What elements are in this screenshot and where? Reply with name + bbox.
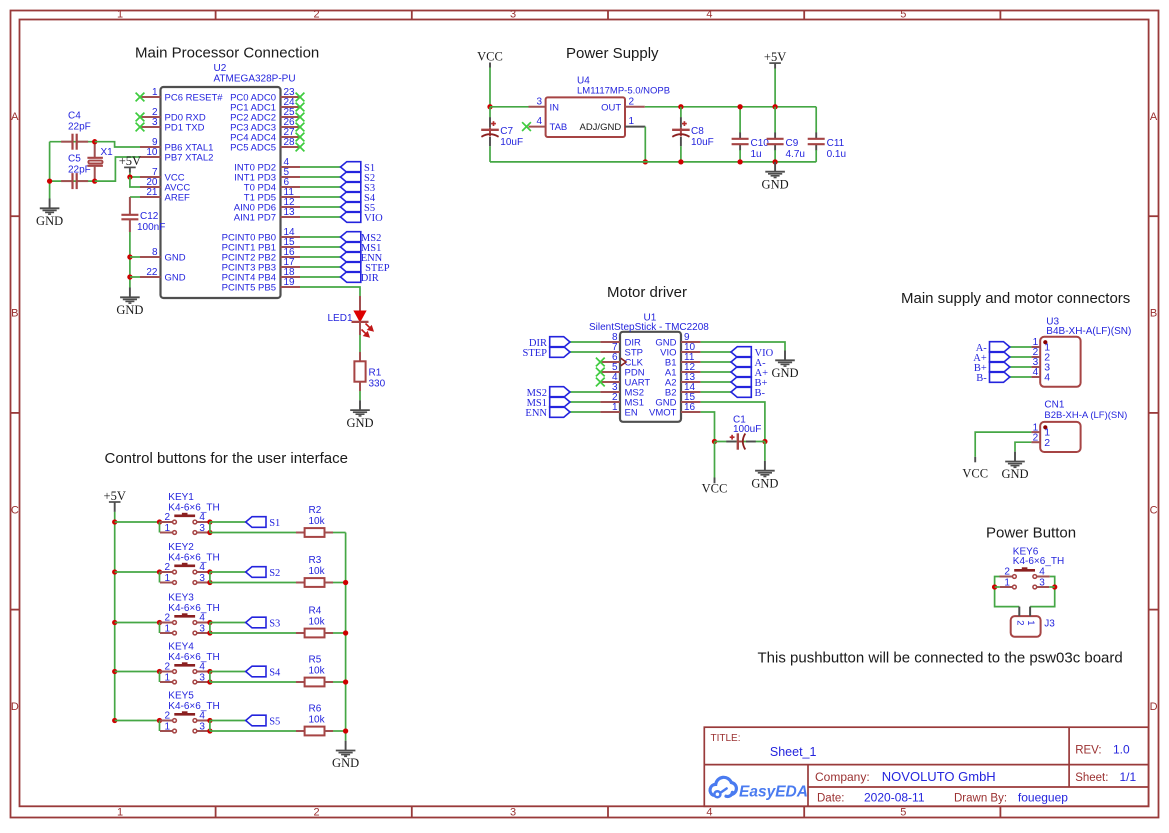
svg-text:3: 3	[536, 96, 542, 107]
wire top rail to C8	[680, 107, 682, 118]
U2 pin 7 VCC	[140, 167, 185, 184]
svg-text:4: 4	[706, 807, 712, 819]
wire KEY3 pins 3-4 link	[209, 623, 211, 634]
wire to AVCC pin	[130, 177, 140, 187]
wire U2 to net S3	[300, 186, 341, 188]
wire U2 to net VIO	[300, 216, 341, 218]
svg-text:R1: R1	[369, 367, 382, 378]
svg-text:PC5 ADC5: PC5 ADC5	[230, 143, 276, 154]
svg-text:2: 2	[164, 613, 170, 624]
junction	[112, 718, 117, 723]
svg-text:3: 3	[199, 523, 205, 534]
svg-text:C4: C4	[68, 111, 81, 122]
wire KEY2 to net S2	[210, 571, 246, 573]
wire U2 to net MS2	[300, 236, 341, 238]
net flag DIR	[550, 337, 570, 348]
wire OUT to +5V rail	[645, 106, 816, 108]
net flag VIO	[341, 212, 361, 223]
wire U1 to net VIO	[701, 351, 731, 353]
svg-text:5: 5	[900, 807, 906, 819]
connector U3 body	[1040, 337, 1080, 387]
wire KEY1 to net S1	[210, 521, 246, 523]
U2 pin 19 PCINT5 PB5	[222, 277, 300, 294]
svg-text:K4-6×6_TH: K4-6×6_TH	[168, 652, 219, 663]
wire KEY5 to net S5	[210, 720, 246, 722]
net flag S5	[341, 202, 361, 213]
svg-text:10uF: 10uF	[691, 137, 714, 148]
capacitor C11	[808, 107, 825, 162]
svg-text:Main supply and motor connecto: Main supply and motor connectors	[901, 290, 1130, 307]
svg-text:1: 1	[164, 672, 170, 683]
wire KEY6 right to J3	[1030, 577, 1055, 607]
svg-text:3: 3	[510, 807, 516, 819]
svg-text:ADJ/GND: ADJ/GND	[579, 122, 621, 133]
wire PB5 to LED1	[300, 287, 360, 296]
capacitor C1	[726, 433, 756, 449]
wire KEY4 to R5	[210, 681, 296, 683]
svg-text:10k: 10k	[309, 516, 326, 527]
svg-text:KEY5: KEY5	[168, 691, 194, 702]
svg-text:B2B-XH-A (LF)(SN): B2B-XH-A (LF)(SN)	[1044, 410, 1127, 421]
wire U1 to net A+	[701, 371, 731, 373]
svg-text:28: 28	[284, 137, 296, 148]
junction	[207, 580, 212, 585]
wire KEY3 to R4	[210, 632, 296, 634]
svg-text:X1: X1	[101, 147, 114, 158]
svg-text:4: 4	[1039, 567, 1045, 578]
wire KEY4 to net S4	[210, 671, 246, 673]
junction	[487, 104, 492, 109]
svg-text:GND: GND	[36, 214, 63, 228]
junction	[127, 254, 132, 259]
power flag VCC connector	[962, 457, 988, 481]
ground symbol U1 pin 9	[771, 351, 798, 381]
net flag S4	[246, 666, 266, 677]
ground symbol below R1	[346, 400, 373, 430]
net flag B-	[731, 387, 751, 398]
net flag ENN	[550, 407, 570, 418]
switch KEY2	[160, 562, 210, 584]
svg-text:CN1: CN1	[1044, 399, 1064, 410]
junction	[207, 728, 212, 733]
svg-text:GND: GND	[116, 303, 143, 317]
wire U2 to net MS1	[300, 246, 341, 248]
svg-text:C12: C12	[140, 211, 159, 222]
svg-text:K4-6×6_TH: K4-6×6_TH	[1013, 556, 1064, 567]
U4 pin 2 OUT	[601, 96, 645, 113]
wire U2 to net DIR	[300, 276, 341, 278]
U1 pin 7 STP	[600, 342, 643, 359]
wire net A- to U3	[1010, 346, 1032, 348]
svg-text:S1: S1	[269, 518, 280, 529]
wire KEY3 pin1 link	[159, 623, 161, 634]
svg-text:REV:: REV:	[1075, 745, 1101, 757]
svg-text:3: 3	[1039, 577, 1045, 588]
wire C12 to ground bus	[129, 232, 131, 288]
net flag S4	[341, 192, 361, 203]
svg-text:+5V: +5V	[764, 50, 786, 64]
IC U2 body	[161, 87, 281, 298]
svg-text:EasyEDA: EasyEDA	[739, 784, 808, 801]
resistor R1	[354, 352, 365, 391]
svg-text:GND: GND	[165, 253, 186, 264]
svg-text:R5: R5	[309, 655, 322, 666]
capacitor C10	[732, 107, 749, 162]
capacitor C9	[767, 107, 784, 162]
net flag S2	[246, 567, 266, 578]
svg-text:PC6 RESET#: PC6 RESET#	[165, 93, 224, 104]
junction	[207, 669, 212, 674]
svg-text:GND: GND	[165, 273, 186, 284]
svg-text:KEY2: KEY2	[168, 542, 194, 553]
wire C1 row	[715, 441, 765, 443]
svg-text:10k: 10k	[309, 665, 326, 676]
U1 pin 9 GND	[655, 332, 700, 349]
svg-text:1: 1	[164, 721, 170, 732]
wire U2 to net STEP	[300, 266, 341, 268]
svg-text:+5V: +5V	[104, 489, 126, 503]
junction	[127, 274, 132, 279]
junction	[157, 669, 162, 674]
junction	[772, 104, 777, 109]
resistor R5	[296, 678, 333, 687]
svg-text:2: 2	[164, 562, 170, 573]
ground symbol connector	[1001, 452, 1028, 482]
svg-text:A: A	[1150, 111, 1158, 123]
svg-text:1: 1	[152, 87, 158, 98]
wire R6 to right bus	[333, 730, 346, 732]
wire U2 to net ENN	[300, 256, 341, 258]
U2 pin 22 GND	[140, 267, 186, 284]
U2 pin 16 PCINT2 PB2	[222, 247, 300, 264]
net flag MS1	[550, 397, 570, 408]
U1 pin 14 B2	[665, 382, 701, 399]
LED LED1	[352, 296, 373, 337]
svg-text:3: 3	[510, 8, 516, 20]
junction	[207, 718, 212, 723]
svg-text:1: 1	[629, 116, 635, 127]
junction	[112, 620, 117, 625]
junction	[157, 569, 162, 574]
switch KEY5	[160, 711, 210, 733]
wire R2 to right bus	[333, 532, 346, 534]
svg-text:330: 330	[369, 378, 386, 389]
net flag MS2	[341, 232, 361, 243]
wire left bus to ground	[49, 142, 51, 199]
net flag S1	[341, 162, 361, 173]
junction	[112, 569, 117, 574]
U1 pin 3 MS2	[600, 382, 644, 399]
wire +5V down to rail	[774, 69, 776, 107]
wire C1 to VCC	[714, 442, 716, 478]
svg-text:R3: R3	[309, 555, 322, 566]
svg-text:4: 4	[199, 613, 205, 624]
svg-text:PB7 XTAL2: PB7 XTAL2	[165, 153, 214, 164]
U2 pin 14 PCINT0 PB0	[222, 227, 300, 244]
wire U2 to net S1	[300, 166, 341, 168]
svg-text:K4-6×6_TH: K4-6×6_TH	[168, 552, 219, 563]
svg-text:C: C	[11, 504, 19, 516]
capacitor C12	[121, 197, 138, 232]
U4 pin 4 TAB no-connect	[522, 116, 567, 133]
U2 pin 2 PD0 RXD	[136, 107, 206, 124]
svg-text:1: 1	[117, 807, 123, 819]
svg-text:10uF: 10uF	[500, 137, 523, 148]
wire C5 row	[50, 180, 95, 182]
svg-text:S2: S2	[269, 568, 280, 579]
svg-text:foueguep: foueguep	[1018, 791, 1068, 805]
svg-text:GND: GND	[762, 177, 789, 191]
U1 pin 16 VMOT	[649, 402, 701, 419]
svg-text:16: 16	[684, 402, 696, 413]
junction	[772, 159, 777, 164]
wire KEY5 to R6	[210, 730, 296, 732]
U1 pin 12 A1	[665, 362, 701, 379]
ground symbol crystal	[36, 199, 63, 229]
svg-text:KEY3: KEY3	[168, 593, 194, 604]
junction	[157, 620, 162, 625]
wire R5 to right bus	[333, 681, 346, 683]
svg-text:C5: C5	[68, 154, 81, 165]
wire U2 to net S5	[300, 206, 341, 208]
net flag MS1	[341, 242, 361, 253]
wire KEY1 pin1 link	[159, 522, 161, 533]
J3 pin 2	[1014, 607, 1025, 626]
svg-text:4: 4	[199, 711, 205, 722]
wire +5V to VCC pin	[130, 173, 140, 177]
net flag A-	[990, 342, 1010, 353]
svg-text:PCINT5 PB5: PCINT5 PB5	[222, 283, 276, 294]
wire U1 to net B+	[701, 381, 731, 383]
svg-text:2020-08-11: 2020-08-11	[864, 791, 925, 805]
svg-text:R4: R4	[309, 606, 322, 617]
svg-text:LED1: LED1	[327, 313, 352, 324]
svg-text:C: C	[1150, 504, 1158, 516]
svg-text:C7: C7	[500, 126, 513, 137]
svg-text:2: 2	[164, 512, 170, 523]
svg-text:1.0: 1.0	[1113, 743, 1130, 757]
svg-text:10k: 10k	[309, 714, 326, 725]
svg-text:Drawn By:: Drawn By:	[954, 793, 1007, 805]
wire to GND pin 8	[130, 256, 140, 258]
svg-text:22pF: 22pF	[68, 165, 91, 176]
U1 pin 5 PDN	[596, 362, 645, 379]
svg-text:KEY4: KEY4	[168, 642, 194, 653]
junction	[207, 530, 212, 535]
wire U1 to net A-	[701, 361, 731, 363]
net flag S5	[246, 715, 266, 726]
wire KEY2 to R3	[210, 582, 296, 584]
wire U1 VMOT pin 16 to C1	[701, 412, 715, 442]
wire KEY4 pin1 link	[159, 672, 161, 683]
svg-text:100nF: 100nF	[137, 222, 165, 233]
junction	[92, 139, 97, 144]
U3 polarity dot	[1043, 340, 1047, 344]
svg-text:1: 1	[164, 573, 170, 584]
junction	[127, 174, 132, 179]
svg-text:R6: R6	[309, 704, 322, 715]
net flag DIR	[341, 272, 361, 283]
ground symbol buttons	[332, 741, 359, 771]
switch KEY1	[160, 512, 210, 534]
U2 pin 21 AREF	[140, 187, 190, 204]
wire LED1 to R1	[359, 335, 361, 352]
svg-text:10k: 10k	[309, 616, 326, 627]
wire net MS2 to U1	[570, 391, 600, 393]
U2 pin 3 PD1 TXD	[136, 117, 205, 134]
U2 pin 11 T1 PD5	[244, 187, 300, 204]
resistor R6	[296, 727, 333, 736]
svg-text:Main Processor Connection: Main Processor Connection	[135, 45, 319, 62]
junction	[47, 178, 52, 183]
U2 pin 18 PCINT4 PB4	[222, 267, 300, 284]
wire +5V to key bus	[114, 512, 116, 721]
svg-text:1: 1	[612, 402, 618, 413]
svg-text:4: 4	[199, 562, 205, 573]
ground symbol power supply	[762, 162, 789, 192]
U1 pin 13 A2	[665, 372, 701, 389]
wire VCC rail to IN pin	[490, 106, 529, 108]
net flag STEP	[550, 347, 570, 358]
svg-text:PD1 TXD: PD1 TXD	[165, 123, 205, 134]
svg-text:Sheet_1: Sheet_1	[770, 745, 817, 759]
svg-text:VCC: VCC	[477, 49, 503, 63]
wire net B+ to U3	[1010, 366, 1032, 368]
U1 pin 10 VIO	[660, 342, 701, 359]
junction	[678, 104, 683, 109]
wire AREF to C12	[130, 196, 140, 198]
wire KEY1 to R2	[210, 532, 296, 534]
svg-text:2: 2	[1033, 432, 1039, 443]
svg-text:GND: GND	[771, 366, 798, 380]
svg-text:B: B	[11, 308, 18, 320]
wire U1 GND pin 15 to C1	[701, 402, 765, 442]
svg-text:2: 2	[1004, 567, 1010, 578]
svg-text:4.7u: 4.7u	[786, 149, 805, 160]
U2 pin 20 AVCC	[140, 177, 190, 194]
svg-text:1/1: 1/1	[1120, 770, 1137, 784]
power flag +5V buttons	[104, 489, 126, 512]
svg-text:VMOT: VMOT	[649, 408, 677, 419]
svg-text:AREF: AREF	[165, 193, 191, 204]
CN1 pin 2	[1031, 432, 1050, 448]
junction	[207, 630, 212, 635]
U2 pin 4 INT0 PD2	[234, 157, 300, 174]
wire KEY1 pins 3-4 link	[209, 522, 211, 533]
wire KEY6 pin1 stub	[995, 586, 1000, 588]
power flag VCC supply input	[477, 49, 503, 67]
IC U4 body	[546, 97, 625, 137]
wire KEY3 to net S3	[210, 622, 246, 624]
svg-text:2: 2	[313, 807, 319, 819]
svg-text:C9: C9	[786, 138, 799, 149]
svg-text:S4: S4	[269, 668, 281, 679]
net flag S3	[246, 617, 266, 628]
U2 pin 5 INT1 PD3	[234, 167, 300, 184]
wire KEY6 pin3 stub	[1049, 586, 1054, 588]
wire C1 to GND	[764, 442, 766, 461]
net flag VIO	[731, 347, 751, 358]
svg-text:3: 3	[152, 117, 158, 128]
svg-text:Power Supply: Power Supply	[566, 45, 659, 62]
wire net ENN to U1	[570, 411, 600, 413]
net flag A+	[990, 352, 1010, 363]
wire KEY2 pins 3-4 link	[209, 572, 211, 583]
net flag A+	[731, 367, 751, 378]
svg-text:2: 2	[629, 96, 635, 107]
svg-text:+5V: +5V	[119, 154, 141, 168]
svg-text:1: 1	[1004, 577, 1010, 588]
capacitor C7	[481, 117, 499, 146]
wire U1 GND pin 9	[701, 342, 785, 351]
power flag +5V supply output	[764, 50, 786, 69]
junction	[207, 569, 212, 574]
svg-text:4: 4	[199, 512, 205, 523]
svg-text:4: 4	[706, 8, 712, 20]
wire net A+ to U3	[1010, 356, 1032, 358]
svg-text:EN: EN	[625, 408, 638, 419]
svg-text:4: 4	[536, 116, 542, 127]
svg-text:Date:: Date:	[817, 793, 845, 805]
svg-text:22pF: 22pF	[68, 122, 91, 133]
switch KEY6	[999, 567, 1049, 589]
resistor R3	[296, 578, 333, 587]
svg-text:D: D	[11, 701, 19, 713]
junction	[678, 159, 683, 164]
net flag MS2	[550, 387, 570, 398]
junction	[737, 104, 742, 109]
svg-text:GND: GND	[1001, 467, 1028, 481]
junction	[992, 584, 997, 589]
svg-text:B: B	[1150, 308, 1157, 320]
net flag S1	[246, 517, 266, 528]
svg-text:U2: U2	[214, 63, 227, 74]
J3 pin 1	[1025, 607, 1036, 626]
svg-text:4: 4	[1044, 372, 1050, 384]
svg-text:Power Button: Power Button	[986, 525, 1076, 542]
svg-text:4: 4	[199, 662, 205, 673]
svg-text:1u: 1u	[751, 149, 762, 160]
svg-text:K4-6×6_TH: K4-6×6_TH	[168, 603, 219, 614]
junction	[643, 159, 648, 164]
U1 pin 2 MS1	[600, 392, 644, 409]
svg-text:DIR: DIR	[361, 273, 379, 284]
svg-text:Motor driver: Motor driver	[607, 284, 687, 301]
wire CN1 pin 2 to GND	[1015, 442, 1031, 452]
svg-text:3: 3	[199, 623, 205, 634]
U2 pin 26 PC3 ADC3	[230, 117, 304, 134]
wire U2 to net S2	[300, 176, 341, 178]
svg-text:IN: IN	[550, 102, 560, 113]
U2 pin 9 PB6 XTAL1	[140, 137, 213, 154]
svg-text:13: 13	[284, 207, 296, 218]
svg-text:ENN: ENN	[525, 408, 547, 419]
junction	[343, 630, 348, 635]
resistor R2	[296, 528, 333, 537]
wire bus to KEY4	[115, 671, 160, 673]
wire net B- to U3	[1010, 376, 1032, 378]
U2 pin 8 GND	[140, 247, 186, 264]
svg-text:10: 10	[146, 147, 158, 158]
CN1 pin 1	[1031, 422, 1050, 438]
connector J3 body	[1011, 616, 1041, 637]
svg-text:2: 2	[164, 662, 170, 673]
svg-text:3: 3	[199, 721, 205, 732]
wire R3 to right bus	[333, 582, 346, 584]
wire net DIR to U1	[570, 341, 600, 343]
net flag B+	[731, 377, 751, 388]
U4 pin 3 IN	[529, 96, 560, 113]
